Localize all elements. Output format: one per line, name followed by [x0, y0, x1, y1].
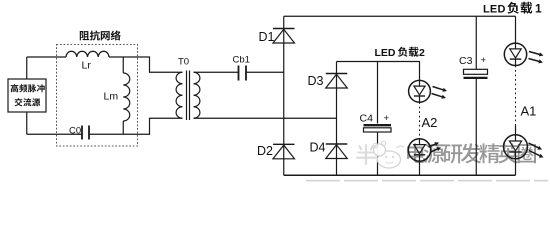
capacitor Cb1: [239, 66, 247, 81]
svg-text:C0: C0: [69, 126, 81, 137]
svg-text:D2: D2: [257, 144, 273, 158]
LED bottom of string 2: [408, 139, 430, 161]
svg-text:A2: A2: [422, 115, 438, 130]
wire dotted string 2: [419, 102, 421, 139]
capacitor C0: [82, 126, 89, 140]
watermark ghost char: [356, 144, 376, 164]
svg-text:Cb1: Cb1: [233, 55, 250, 66]
svg-text:1: 1: [535, 2, 542, 16]
wire top bus: [284, 15, 516, 17]
wire bottom bus: [284, 174, 516, 176]
wire dotted string 1: [515, 66, 517, 126]
diode D3: [326, 73, 348, 75]
LED bottom of string 1: [504, 135, 528, 159]
rail 2: [336, 62, 338, 176]
inductor Lm: [122, 57, 124, 73]
svg-text:LED: LED: [483, 4, 506, 16]
impedance network dashed box: [57, 45, 138, 147]
svg-text:C3: C3: [459, 55, 473, 67]
svg-text:D4: D4: [310, 141, 326, 155]
watermark text: [407, 143, 425, 163]
diode D2: [273, 143, 295, 145]
inductor Lr: [66, 51, 109, 57]
svg-text:T0: T0: [178, 57, 189, 68]
capacitor C3: [475, 16, 477, 69]
svg-text:+: +: [384, 113, 390, 124]
rail 1: [283, 16, 285, 175]
wire LED2 bus: [337, 62, 420, 81]
wire secondary top: [194, 71, 239, 73]
diode D1: [273, 28, 295, 30]
svg-text:D1: D1: [259, 30, 275, 44]
svg-text:D3: D3: [308, 74, 324, 88]
svg-text:2: 2: [419, 47, 425, 59]
wire to LED string 1: [515, 16, 517, 43]
wire left vertical: [26, 57, 28, 134]
wire bottom left: [27, 133, 82, 135]
AC source box: [8, 79, 46, 112]
svg-text:+: +: [481, 55, 487, 66]
wire top to transformer: [109, 57, 183, 72]
wire top left: [27, 56, 66, 58]
svg-text:Lm: Lm: [104, 91, 119, 103]
watermark logo blob: [373, 141, 404, 168]
svg-text:A1: A1: [521, 104, 537, 119]
svg-text:Lr: Lr: [82, 60, 92, 72]
watermark underline artifact: [306, 180, 548, 182]
svg-text:LED: LED: [375, 47, 396, 59]
LED top of string 2: [409, 80, 431, 102]
diode D4: [326, 143, 348, 145]
LED top of string 1: [504, 43, 526, 65]
wire bottom to transformer: [89, 118, 183, 134]
svg-text:C4: C4: [360, 113, 374, 125]
wire secondary bottom: [194, 117, 337, 119]
capacitor C4: [377, 62, 379, 124]
